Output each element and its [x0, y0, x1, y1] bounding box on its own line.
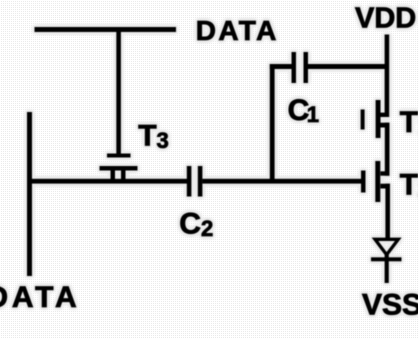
transistor T1: [361, 100, 389, 138]
wire C1 branch vertical: [270, 64, 275, 183]
wire T3 gate vertical: [116, 29, 121, 154]
svg-text:VDD: VDD: [355, 3, 416, 35]
capacitor C2: [187, 166, 203, 197]
svg-text:DATA: DATA: [196, 15, 279, 46]
wire C1 top left: [270, 64, 293, 69]
wire main horizontal right segment: [202, 179, 361, 184]
transistor T3: [100, 154, 138, 182]
capacitor C1: [292, 52, 309, 83]
svg-text:DATA: DATA: [0, 281, 80, 314]
svg-text:VSS: VSS: [362, 288, 418, 321]
wire T2 source down: [385, 184, 390, 239]
wire T1 source to T2 drain: [385, 123, 390, 176]
wire top DATA line horizontal: [35, 27, 177, 32]
transistor T2: [361, 161, 390, 202]
svg-text:T2: T2: [400, 168, 418, 201]
wire C1 top right: [308, 64, 389, 69]
svg-text:T1: T1: [400, 106, 418, 139]
diode D1: [371, 239, 402, 283]
wire VDD rail: [385, 35, 390, 118]
wire left DATA line vertical: [27, 112, 32, 276]
wire main horizontal left segment: [27, 179, 187, 184]
